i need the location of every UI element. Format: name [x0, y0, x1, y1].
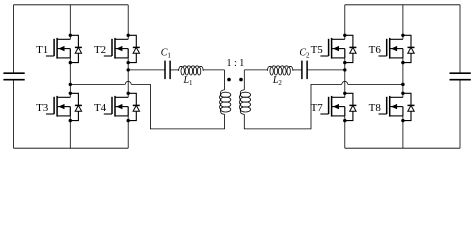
svg-text:C1: C1: [161, 47, 172, 59]
svg-text:L1: L1: [182, 75, 193, 87]
svg-text:L2: L2: [272, 75, 283, 87]
svg-text:T6: T6: [369, 44, 382, 56]
svg-text:1 : 1: 1 : 1: [227, 58, 245, 69]
svg-text:T2: T2: [94, 44, 106, 56]
svg-text:T4: T4: [94, 102, 107, 114]
svg-text:T7: T7: [311, 102, 324, 114]
svg-text:C2: C2: [299, 47, 310, 59]
svg-text:T3: T3: [36, 102, 49, 114]
svg-text:T5: T5: [311, 44, 324, 56]
svg-text:T1: T1: [36, 44, 48, 56]
svg-text:T8: T8: [369, 102, 382, 114]
